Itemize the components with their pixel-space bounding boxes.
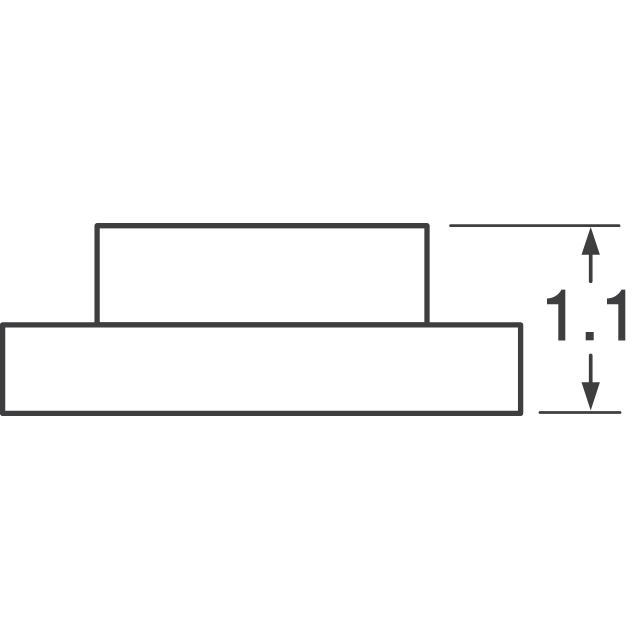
dimension text 1.1 [547,290,625,341]
digit 1 (second) [607,290,625,341]
extension line bottom [540,411,620,414]
package body top slab [97,226,427,325]
package body bottom slab [3,325,521,414]
extension line top [451,224,619,227]
decimal point [586,332,594,340]
digit 1 (first) [547,290,565,341]
dimension arrow up [582,227,600,255]
dimension arrow down [582,382,600,410]
